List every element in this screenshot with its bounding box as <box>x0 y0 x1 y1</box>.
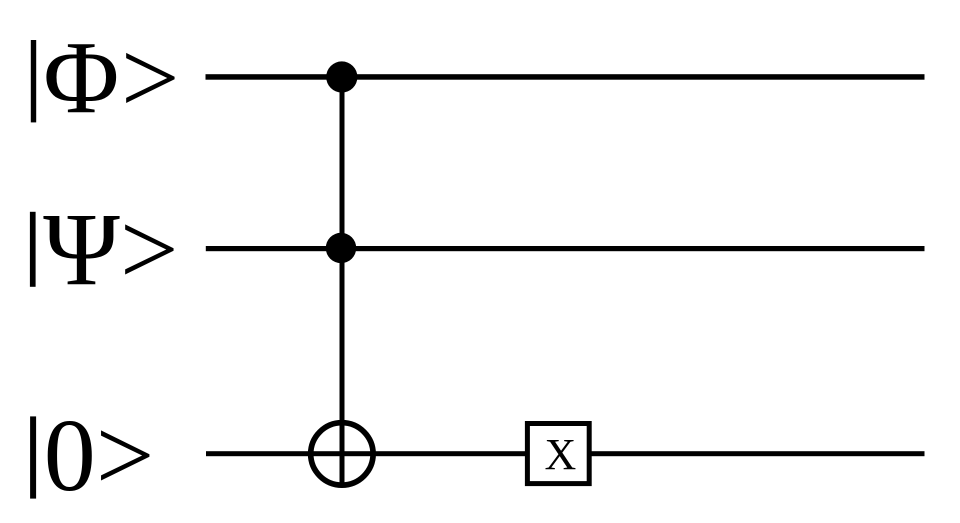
control dot on q1 <box>326 233 356 263</box>
svg-text:Ψ>: Ψ> <box>43 192 178 307</box>
svg-text:Φ>: Φ> <box>43 21 181 136</box>
node q0 ket label |Phi> <box>31 21 181 136</box>
wire q0 <box>206 74 925 80</box>
control dot on q0 <box>326 61 357 92</box>
wire Toffoli vertical stem <box>340 77 345 487</box>
svg-text:0>: 0> <box>44 398 155 513</box>
gate U1 label X <box>545 430 577 479</box>
CCNOT target XOR circle on q2 <box>311 423 373 485</box>
node q1 ket label |Psi> <box>30 192 179 307</box>
wire q1 <box>206 246 925 251</box>
node q2 ket label |0> <box>30 398 154 513</box>
gate U1 X-gate box <box>527 424 589 484</box>
wire q2 <box>206 451 925 456</box>
svg-text:X: X <box>545 430 577 479</box>
